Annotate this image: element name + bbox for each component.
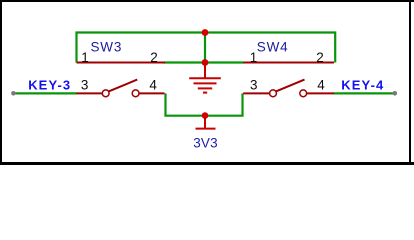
svg-text:1: 1	[81, 50, 89, 65]
svg-text:1: 1	[250, 50, 258, 65]
svg-text:KEY-4: KEY-4	[341, 78, 384, 93]
wire: SW4 pin 4 to KEY-4 net wire	[334, 92, 396, 94]
svg-text:4: 4	[149, 77, 157, 92]
svg-text:SW3: SW3	[91, 40, 123, 55]
svg-text:KEY-3: KEY-3	[28, 78, 71, 93]
power 3V3 bar	[196, 116, 216, 129]
svg-text:2: 2	[150, 50, 158, 65]
switch SW3 body	[77, 63, 166, 97]
node KEY-3 connection dot	[11, 91, 16, 96]
node KEY-4 connection dot	[393, 91, 398, 96]
wire: middle bus y=62 between SW3 pin2 and SW4 pin1	[164, 61, 244, 63]
svg-text:3V3: 3V3	[193, 135, 218, 150]
junction dot: middle bus at x=205 (ground tap)	[202, 59, 209, 66]
svg-text:2: 2	[316, 50, 324, 65]
svg-text:3: 3	[81, 77, 89, 92]
svg-text:SW4: SW4	[257, 40, 289, 55]
junction dot: top bus at x=205	[202, 29, 209, 36]
wire: vertical drop from top bus to middle bus at x=205	[204, 33, 206, 63]
svg-text:4: 4	[317, 77, 325, 92]
wire: KEY-3 net wire to SW3 pin 3	[13, 92, 77, 94]
svg-text:3: 3	[250, 77, 258, 92]
wire: SW3 pin4 down, across bottom, up to SW4 pin3	[166, 93, 243, 115]
wire: top bus loop (pin1 SW3 up, across top, down to pin2 SW4)	[77, 33, 336, 63]
junction dot: bottom bus at x=205 (3V3 tap)	[202, 112, 209, 119]
switch SW4 body	[243, 63, 334, 97]
ground	[189, 63, 221, 93]
